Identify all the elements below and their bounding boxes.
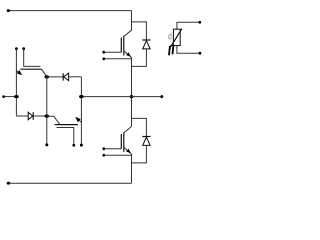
node Q2 emitter terminal [102,154,105,157]
node top-left terminal [7,9,10,12]
node Q1 emitter terminal [102,57,105,60]
wire leg upper [131,11,133,31]
node mid-left junction [79,95,84,98]
wire right-left vertical [80,77,82,145]
wire Q4 gate lead [57,128,74,146]
wire D2 cathode return [132,145,147,163]
label theta small [169,33,172,39]
node Q3 gate top terminal [22,47,25,50]
transistor Q2 (lower IGBT) [121,126,131,154]
diode D4 (points right) [16,112,46,120]
node phase junction [130,95,134,98]
node Q3 collector junction [45,75,50,78]
thermistor RT1 body [170,29,182,48]
node thermistor bottom terminal [199,52,202,55]
label theta bold [169,45,173,55]
wire left emitter vertical [15,49,17,117]
node bottom-left terminal [7,182,10,185]
wire branch to diode D1 [132,22,147,40]
node Q1 gate terminal [102,51,105,54]
wire center-left vertical [46,77,48,145]
node stub terminal [2,95,5,98]
wire branch to diode D2 [132,118,147,136]
diode D2 [142,137,150,146]
node center-left bottom terminal [45,143,48,146]
wire thermistor top lead [177,22,200,29]
wire leg lower [131,154,133,183]
transistor Q1 (upper IGBT) [121,30,131,57]
wire Q1 gate lead [104,51,122,53]
node D4 junction [45,115,50,118]
diode D3 (points left) [47,73,82,81]
wire Q2 gate lead [104,148,122,150]
wire bottom rail [8,182,131,184]
node Q4 gate terminal [72,144,75,147]
wire Q2 emitter lead [104,154,132,156]
wire leg middle [131,58,133,127]
node stub junction [14,95,19,98]
node Q3 emitter top terminal [15,47,18,50]
transistor Q3 (upper left) [16,69,47,77]
wire Q1 emitter lead [104,58,132,60]
wire mid-left stub [4,96,17,98]
diode D1 [142,40,150,49]
transistor Q4 (lower left) [47,116,82,124]
wire thermistor bottom lead [177,46,200,54]
node Q2 gate terminal [102,147,105,150]
node right-left bottom terminal [80,144,83,147]
wire top rail [8,10,131,12]
wire D1 cathode return [132,49,147,67]
node mid rail terminal [160,95,163,98]
node thermistor top terminal [198,21,201,24]
wire Q3 gate lead [24,49,41,67]
wire mid rail [81,96,162,98]
